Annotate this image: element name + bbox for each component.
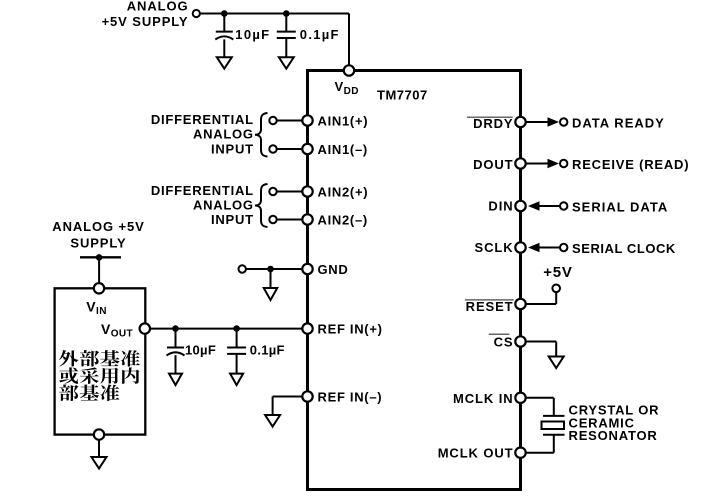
svg-text:RESONATOR: RESONATOR (569, 428, 658, 443)
svg-text:GND: GND (318, 262, 349, 277)
wire GND (246, 268, 303, 270)
power rail bar (80, 256, 121, 258)
svg-text:DIFFERENTIAL: DIFFERENTIAL (151, 112, 254, 127)
wire C4 bottom (236, 354, 238, 374)
IC U1 TM7707 (308, 71, 521, 490)
terminal RECEIVE (READ) (560, 160, 567, 167)
svg-text:CS: CS (494, 334, 514, 349)
pin CS (515, 336, 525, 346)
terminal analog +5V supply (193, 10, 200, 17)
pin REF IN(+) (302, 323, 312, 333)
wire AIN1(-) (277, 148, 303, 150)
svg-text:MCLK OUT: MCLK OUT (438, 446, 514, 461)
pin VIN terminal (94, 283, 104, 293)
svg-text:0.1µF: 0.1µF (250, 342, 285, 357)
pin AIN2(+) (302, 186, 312, 196)
crystal X1 (542, 416, 565, 435)
ground C3 (169, 374, 182, 386)
ground C4 (230, 374, 243, 386)
wire AIN2(+) (277, 191, 303, 193)
svg-text:TM7707: TM7707 (377, 87, 428, 102)
arrow DIN in (528, 201, 560, 211)
pin AIN2(-) (302, 214, 312, 224)
terminal DATA READY (560, 118, 567, 125)
wire VOUT to REF IN(+) (150, 328, 303, 330)
terminal AIN2(+) input (269, 188, 276, 195)
wire GND to ground (270, 269, 272, 288)
capacitor C3 10uF (167, 348, 185, 356)
brace input group 2 (255, 184, 268, 227)
svg-text:AIN1(+): AIN1(+) (318, 113, 369, 128)
svg-text:REF IN(+): REF IN(+) (318, 321, 383, 336)
ground C2 (279, 57, 294, 68)
ground CS (549, 357, 564, 369)
capacitor C4 0.1uF (227, 348, 246, 354)
terminal AIN1(-) input (269, 145, 276, 152)
pin AIN1(+) (302, 115, 312, 125)
external reference block (55, 288, 146, 434)
wire crystal top (553, 398, 555, 416)
wire bar to VIN (98, 257, 100, 283)
svg-text:SUPPLY: SUPPLY (70, 235, 126, 250)
svg-text:ANALOG: ANALOG (127, 0, 189, 14)
wire CS right (526, 341, 557, 343)
svg-text:0.1µF: 0.1µF (300, 27, 340, 42)
terminal SERIAL DATA (560, 202, 567, 209)
pin SCLK (515, 242, 525, 252)
svg-text:MCLK IN: MCLK IN (453, 391, 513, 406)
svg-text:ANALOG +5V: ANALOG +5V (52, 219, 144, 234)
wire +5V down (555, 292, 557, 304)
pin VDD (344, 65, 354, 75)
wire REF IN(-) (273, 396, 303, 398)
arrow DRDY out (526, 117, 560, 127)
svg-text:RESET: RESET (466, 299, 514, 314)
wire AIN1(+) (277, 120, 303, 122)
junction C3 (172, 325, 179, 332)
terminal AIN2(-) input (269, 216, 276, 223)
pin DRDY (515, 117, 525, 127)
svg-text:+5V SUPPLY: +5V SUPPLY (102, 14, 189, 29)
pin reference block bottom (94, 429, 104, 439)
wire AIN2(-) (277, 219, 303, 221)
terminal GND input (239, 265, 246, 272)
ground REF IN(-) (265, 415, 280, 427)
svg-text:DRDY: DRDY (473, 116, 513, 131)
pin REF IN(-) (302, 391, 312, 401)
junction supply/C2 (283, 10, 290, 17)
pin DIN (515, 201, 525, 211)
overline RESET (465, 299, 514, 301)
capacitor C1 10uF (215, 32, 233, 40)
wire C4 top (236, 329, 238, 348)
svg-text:AIN1(–): AIN1(–) (318, 142, 368, 157)
wire C3 bottom (175, 355, 177, 373)
ground C1 (217, 57, 232, 68)
svg-text:ANALOG: ANALOG (193, 197, 254, 212)
svg-text:DATA READY: DATA READY (572, 115, 665, 130)
wire C1 top (223, 14, 225, 32)
pin RESET (515, 299, 525, 309)
terminal AIN1(+) input (269, 117, 276, 124)
pin GND (302, 264, 312, 274)
pin VOUT terminal (140, 323, 150, 333)
junction C4 (233, 325, 240, 332)
wire to RESET pin (526, 303, 557, 305)
pin AIN1(-) (302, 144, 312, 154)
overline DRDY (467, 116, 513, 118)
arrow DOUT out (526, 159, 560, 169)
svg-text:AIN2(+): AIN2(+) (318, 184, 369, 199)
ground GND net (264, 288, 278, 300)
wire C2 top (285, 14, 287, 32)
wire supply rail top (200, 13, 349, 15)
capacitor C2 0.1uF (277, 32, 296, 38)
brace input group 1 (255, 113, 268, 157)
wire to VDD pin (348, 14, 350, 67)
junction GND (267, 266, 274, 273)
svg-text:SERIAL DATA: SERIAL DATA (572, 199, 668, 214)
wire C3 top (175, 329, 177, 348)
svg-text:REF IN(–): REF IN(–) (318, 389, 383, 404)
ground reference block (92, 457, 107, 469)
terminal +5V (552, 285, 560, 293)
label Chinese: external reference or use internal reference (59, 350, 79, 366)
svg-text:DIFFERENTIAL: DIFFERENTIAL (151, 183, 254, 198)
svg-text:INPUT: INPUT (211, 142, 254, 157)
junction supply bar (96, 254, 103, 261)
svg-text:SERIAL CLOCK: SERIAL CLOCK (572, 241, 676, 256)
wire C2 bottom (285, 38, 287, 57)
svg-text:AIN2(–): AIN2(–) (318, 212, 368, 227)
junction supply/C1 (221, 10, 228, 17)
arrow SCLK in (528, 243, 560, 253)
pin DOUT (515, 158, 525, 168)
svg-text:RECEIVE (READ): RECEIVE (READ) (572, 157, 689, 172)
svg-text:+5V: +5V (543, 264, 573, 281)
wire MCLK IN (526, 397, 554, 399)
wire crystal bottom (553, 435, 555, 453)
svg-text:DIN: DIN (488, 199, 513, 214)
svg-text:10µF: 10µF (185, 342, 216, 357)
wire CS down (555, 342, 557, 357)
pin MCLK IN (515, 393, 525, 403)
wire box to ground (98, 440, 100, 457)
wire REF IN(-) down (272, 397, 274, 416)
wire MCLK OUT (526, 452, 554, 454)
svg-text:INPUT: INPUT (211, 212, 254, 227)
svg-text:ANALOG: ANALOG (193, 127, 254, 142)
svg-text:DOUT: DOUT (473, 157, 513, 172)
terminal SERIAL CLOCK (560, 244, 567, 251)
svg-text:10µF: 10µF (235, 27, 270, 42)
pin MCLK OUT (515, 448, 525, 458)
overline CS (489, 333, 510, 335)
wire C1 bottom (223, 39, 225, 57)
svg-text:SCLK: SCLK (475, 240, 514, 255)
